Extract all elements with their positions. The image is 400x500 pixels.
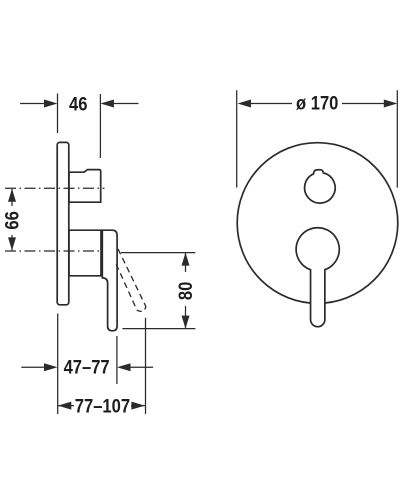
dimension 47-77: left leader line [21,366,44,368]
svg-text:66: 66 [1,211,23,229]
dimension 46: left arrow [44,100,58,108]
svg-text:47–77: 47–77 [64,356,110,378]
diverter button circle with nub [305,170,336,203]
svg-text:80: 80 [175,282,197,300]
dimension 47-77: left arrow [44,363,58,371]
dimension 80: bottom extension line [122,328,195,330]
dimension 47-77: right extension line [116,336,118,384]
svg-text:ø 170: ø 170 [296,92,338,114]
svg-text:77–107: 77–107 [75,395,130,417]
dimension 80: vertical line [185,253,187,329]
handle (front view) [296,228,339,327]
lever handle (side view) [102,230,117,331]
escutcheon circle (front view) [237,143,398,304]
dimension 47-77: right arrow [117,363,131,371]
dimension 46: left leader line [20,103,45,105]
dimension 66: bottom arrow [8,237,16,250]
dimension d170: right extension line [396,90,398,187]
dimension 80: top extension line [121,252,195,254]
lower centerline (outlet axis, dash-dot) [5,250,103,252]
dimension 77-107: left arrow [58,402,72,410]
dimension d170: left extension line [236,90,238,187]
dimension d170: line left segment [250,103,292,105]
dimension 46: right extension line [99,94,101,158]
dimension 77-107: right arrow [131,402,145,410]
dimension 66: vertical line [11,189,13,251]
cartridge body (side view, upper) [69,170,101,203]
dimension 46: right leader line [113,103,139,105]
dashed lever alternate position, rounded tip [137,307,146,312]
dashed lever alternate position, lower edge [116,264,137,310]
dimension 80: bottom arrow [182,316,190,329]
wall plate (side view) [57,142,69,304]
dimension 77-107: right extension line [145,318,147,414]
valve body (side view, lower) [69,230,101,276]
upper centerline (cartridge axis, dash-dot) [5,187,105,189]
dimension d170: right arrow [384,100,398,108]
dimension 66: top arrow [8,189,16,202]
dimension 77-107: line [58,405,145,407]
dimension 46: left extension line [57,94,59,134]
dimension 80: top arrow [182,253,190,266]
dashed lever alternate position, upper edge [118,249,146,307]
dimension d170: line right segment [342,103,385,105]
svg-text:46: 46 [69,93,87,115]
shared left extension line (47-77 / 77-107) [57,314,59,415]
dimension 47-77: right leader line [130,366,153,368]
dimension d170: left arrow [238,100,252,108]
dimension 46: right arrow [100,100,114,108]
